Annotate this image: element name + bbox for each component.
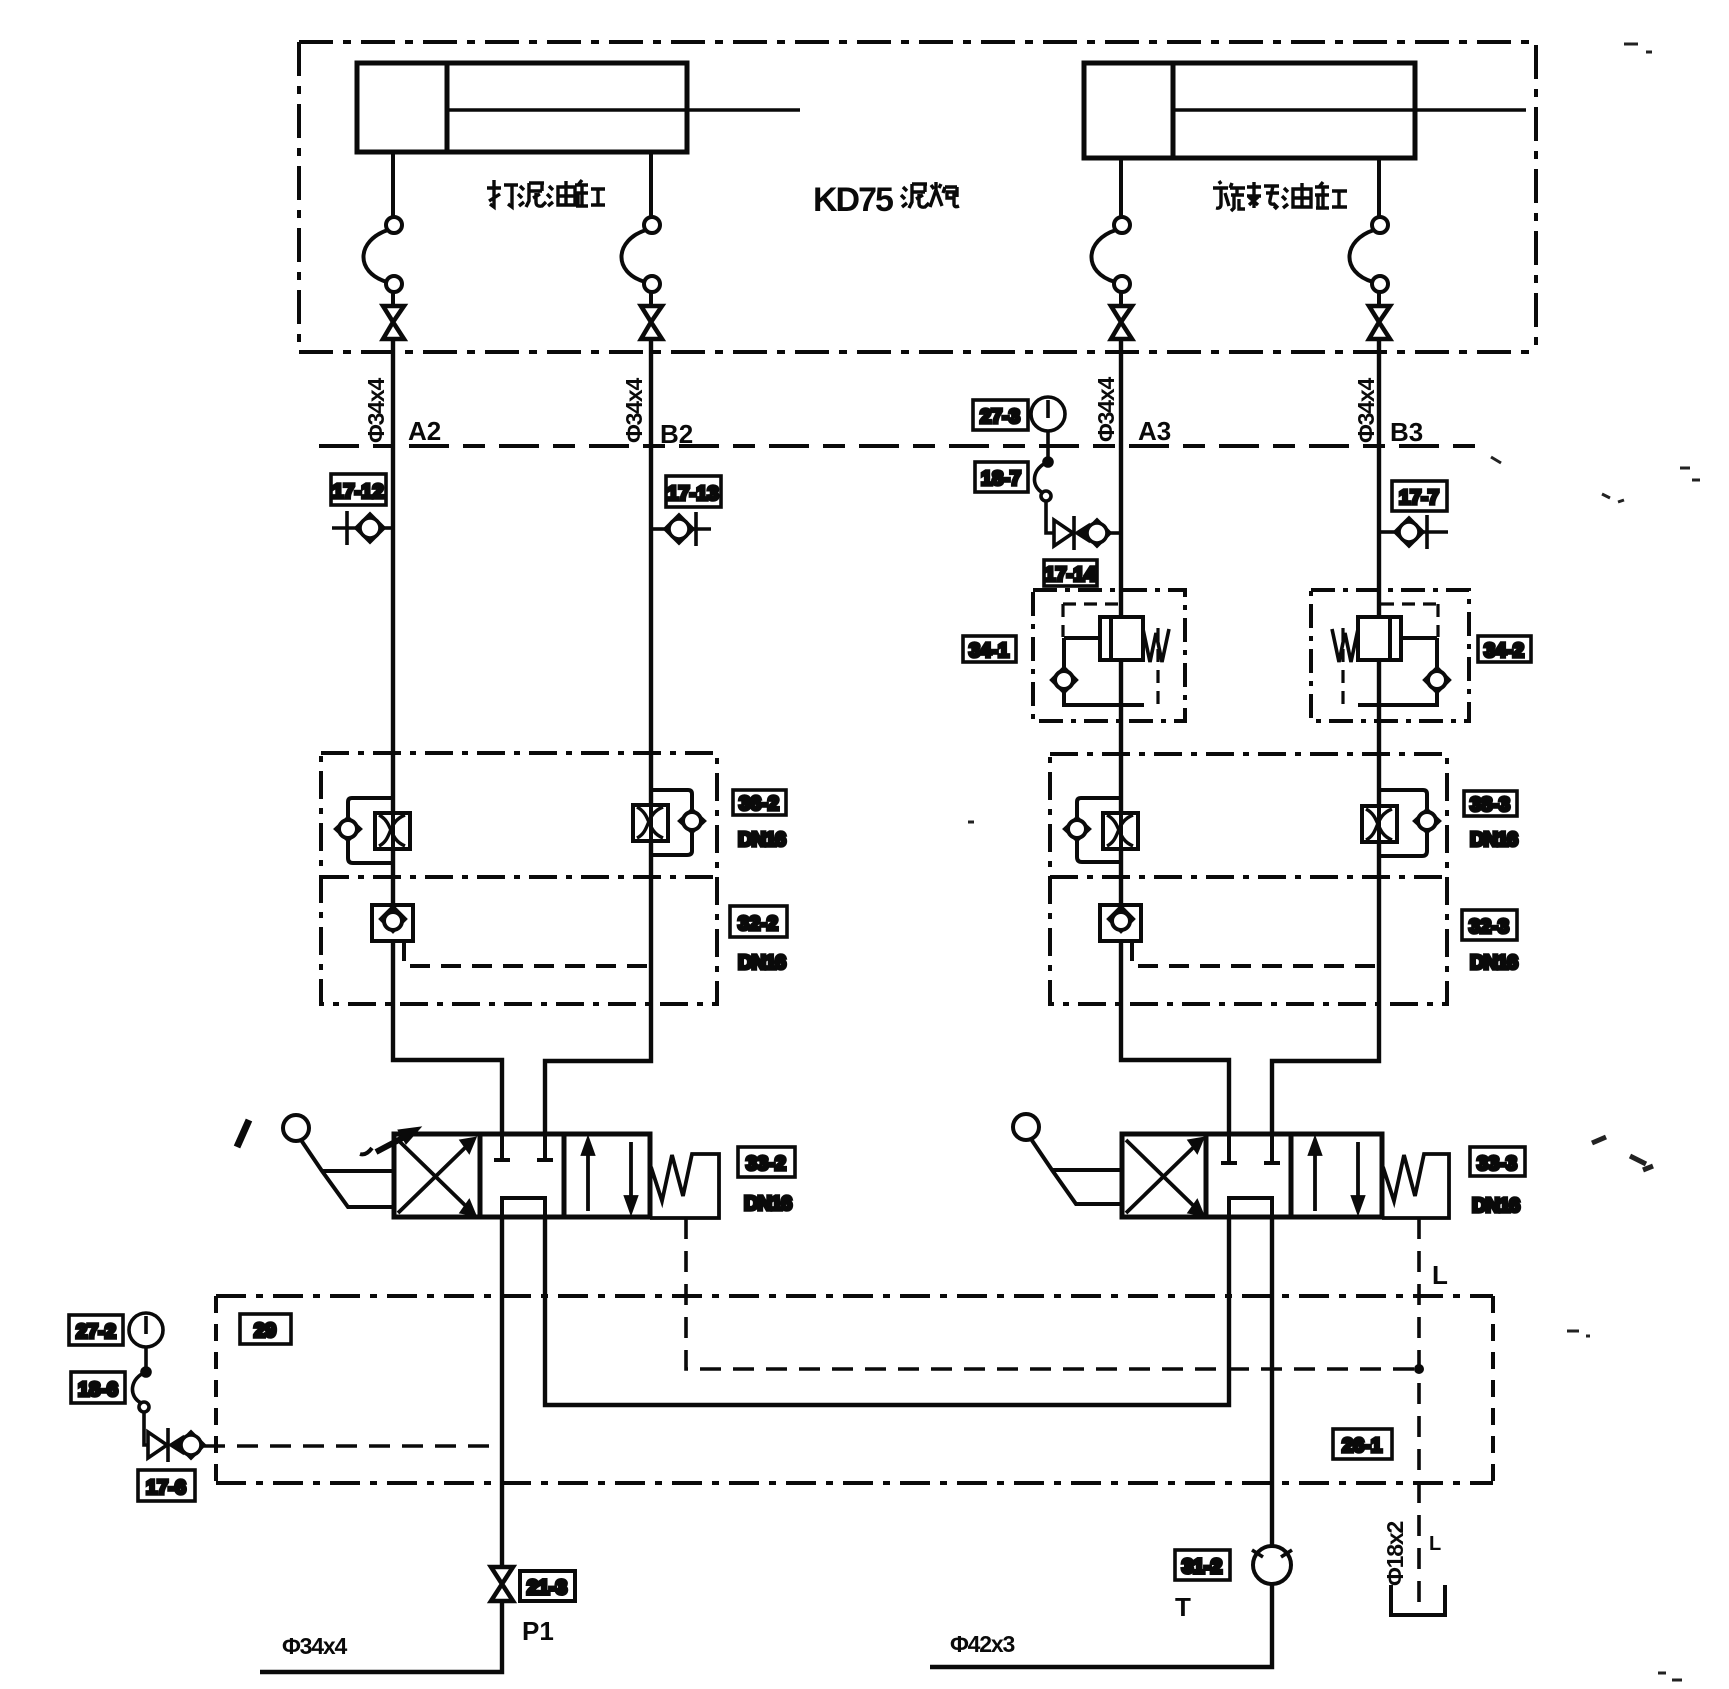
label 36-2 DN16 bbox=[733, 790, 786, 851]
wire 33-2 B to 33-3 P bbox=[545, 1217, 1229, 1405]
svg-text:32-2: 32-2 bbox=[738, 913, 778, 935]
wire P1 supply to valve 33-2 bbox=[500, 1217, 504, 1567]
wire B2 vertical bbox=[545, 339, 651, 1134]
svg-text:Φ34x4: Φ34x4 bbox=[1093, 377, 1119, 442]
manifold block left (36-2 / 32-2 enclosure) bbox=[321, 753, 717, 1004]
directional valve 33-2 body bbox=[394, 1134, 650, 1217]
label 38-3 DN16 bbox=[1464, 791, 1518, 851]
svg-text:Φ42x3: Φ42x3 bbox=[950, 1631, 1014, 1657]
valve 33-3 crossed arrows (left position) bbox=[1126, 1139, 1202, 1214]
svg-text:36-2: 36-2 bbox=[739, 793, 779, 815]
pilot operated check valve 32-3 on A3 bbox=[1100, 905, 1379, 966]
valve 33-3 parallel arrows (right position) bbox=[1310, 1140, 1363, 1211]
shut-off valve on B3 (bowtie) bbox=[1369, 306, 1390, 339]
hose under right cylinder port A3 bbox=[1091, 158, 1130, 306]
pressure gauge 27-2 bbox=[69, 1313, 163, 1370]
svg-text:17-14: 17-14 bbox=[1044, 564, 1096, 586]
label 33-2 DN16 bbox=[738, 1147, 795, 1215]
svg-text:32-3: 32-3 bbox=[1469, 916, 1509, 938]
svg-text:DN16: DN16 bbox=[1470, 829, 1518, 851]
enclosure KD75 mud gun (dash-dot frame) bbox=[299, 42, 1536, 352]
svg-text:Φ34x4: Φ34x4 bbox=[1353, 378, 1379, 443]
shut-off valve with coupling 17-6 bbox=[138, 1428, 204, 1501]
hose under left cylinder port A2 bbox=[363, 152, 402, 306]
throttle check valve (B2 side of 36-2) bbox=[633, 790, 704, 855]
junction dot L bbox=[1414, 1364, 1424, 1374]
svg-text:17-12: 17-12 bbox=[332, 481, 383, 503]
check valve 31-2 on T line bbox=[1175, 1546, 1292, 1584]
svg-text:DN16: DN16 bbox=[738, 829, 786, 851]
wire B3 vertical bbox=[1272, 339, 1379, 1134]
svg-text:17-7: 17-7 bbox=[1399, 487, 1439, 509]
cylinder 打泥油缸 (left hydraulic cylinder) bbox=[357, 63, 800, 152]
valve 33-2 parallel arrows (right position) bbox=[583, 1140, 636, 1211]
svg-text:38-3: 38-3 bbox=[1470, 794, 1510, 816]
valve 33-2 crossed arrows (left position) bbox=[398, 1139, 474, 1214]
svg-text:Φ34x4: Φ34x4 bbox=[363, 378, 389, 443]
label 29 bbox=[240, 1314, 291, 1344]
directional valve 33-3 body bbox=[1122, 1134, 1382, 1217]
hose under left cylinder port B2 bbox=[621, 152, 660, 306]
drain wire L from 33-2 (dashed) bbox=[686, 1218, 1419, 1369]
shut-off valve on A3 (bowtie) bbox=[1111, 306, 1132, 339]
svg-text:18-7: 18-7 bbox=[981, 468, 1021, 490]
valve 33-3 hand lever bbox=[1013, 1114, 1122, 1204]
wire P1 bottom bbox=[260, 1601, 502, 1672]
pen mark / bbox=[237, 1120, 249, 1147]
svg-text:26-1: 26-1 bbox=[1342, 1435, 1382, 1457]
valve 33-2 centre position blocked ports bbox=[494, 1134, 553, 1217]
svg-text:31-2: 31-2 bbox=[1182, 1556, 1222, 1578]
svg-text:P1: P1 bbox=[522, 1616, 554, 1646]
stray scan marks bbox=[968, 44, 1700, 1680]
boundary line between gun and platform (dashed) bbox=[319, 444, 1482, 448]
svg-text:B2: B2 bbox=[660, 419, 693, 449]
label 打泥油缸 (left cylinder title, drawn strokes) bbox=[487, 180, 605, 207]
throttle check valve 38-3 on A3 bbox=[1065, 798, 1138, 862]
test coupling 17-7 on B3 bbox=[1379, 481, 1448, 549]
test coupling 17-12 on A2 bbox=[331, 474, 393, 545]
svg-text:34-2: 34-2 bbox=[1484, 640, 1524, 662]
svg-text:Φ34x4: Φ34x4 bbox=[282, 1633, 347, 1659]
svg-text:29: 29 bbox=[254, 1320, 276, 1342]
svg-text:34-1: 34-1 bbox=[969, 640, 1009, 662]
counterbalance valve 34-2 on B3 bbox=[1478, 636, 1531, 662]
valve 33-3 return spring bbox=[1382, 1154, 1449, 1218]
manifold block right (38-3 / 32-3 enclosure) bbox=[1050, 754, 1447, 1004]
label 旋转油缸 (right cylinder title, drawn strokes) bbox=[1213, 181, 1347, 211]
shut-off valve on B2 (bowtie) bbox=[641, 306, 662, 339]
test line to P1 (dashed) bbox=[204, 1444, 501, 1448]
wire A2 vertical bbox=[393, 339, 502, 1134]
svg-text:T: T bbox=[1175, 1592, 1191, 1622]
svg-text:A3: A3 bbox=[1138, 416, 1171, 446]
svg-text:Φ18x2: Φ18x2 bbox=[1382, 1522, 1408, 1586]
svg-text:27-2: 27-2 bbox=[76, 1321, 116, 1343]
label 26-1 bbox=[1333, 1429, 1392, 1459]
svg-text:27-3: 27-3 bbox=[980, 406, 1020, 428]
svg-text:B3: B3 bbox=[1390, 417, 1423, 447]
shut-off valve on A2 (bowtie) bbox=[383, 306, 404, 339]
label 32-3 DN16 bbox=[1462, 910, 1518, 974]
shut-off valve with coupling 17-14 on A3 bbox=[1044, 516, 1121, 586]
shut-off valve 21-3 on P1 (bowtie) bbox=[491, 1567, 575, 1601]
test coupling 17-13 on B2 bbox=[651, 476, 721, 546]
svg-text:33-3: 33-3 bbox=[1477, 1153, 1517, 1175]
svg-text:33-2: 33-2 bbox=[746, 1153, 786, 1175]
drain wire L from 33-3 (dashed) bbox=[1417, 1218, 1421, 1612]
label 32-2 DN16 bbox=[730, 906, 787, 974]
counterbalance valve 34-1 on A3 bbox=[963, 636, 1016, 662]
wire 33-3 T down bbox=[1270, 1218, 1274, 1547]
port L tank symbol bbox=[1391, 1585, 1445, 1615]
svg-text:L: L bbox=[1429, 1533, 1441, 1555]
svg-text:DN16: DN16 bbox=[1472, 1195, 1520, 1217]
svg-text:A2: A2 bbox=[408, 416, 441, 446]
label 33-3 DN16 bbox=[1470, 1147, 1525, 1217]
svg-text:21-3: 21-3 bbox=[527, 1577, 567, 1599]
valve 33-2 return spring bbox=[650, 1154, 719, 1218]
throttle check valve (B3 side of 38-3) bbox=[1362, 790, 1439, 856]
svg-text:17-6: 17-6 bbox=[146, 1477, 186, 1499]
svg-text:18-6: 18-6 bbox=[78, 1379, 118, 1401]
pen mark arrow at 33-2 bbox=[360, 1127, 421, 1154]
cylinder 旋转油缸 (right hydraulic cylinder) bbox=[1084, 63, 1526, 158]
svg-text:DN16: DN16 bbox=[744, 1193, 792, 1215]
valve 33-3 centre position blocked ports bbox=[1221, 1134, 1280, 1217]
pilot operated check valve 32-2 on A2 bbox=[372, 905, 651, 966]
valve stand enclosure 29 (dash-dot box) bbox=[216, 1296, 1493, 1483]
wire T bottom bbox=[930, 1584, 1272, 1667]
svg-text:L: L bbox=[1432, 1260, 1448, 1290]
hose 18-7 bbox=[975, 458, 1054, 533]
pressure gauge 27-3 bbox=[973, 397, 1065, 459]
svg-text:Φ34x4: Φ34x4 bbox=[621, 378, 647, 443]
wire A3 vertical bbox=[1121, 339, 1229, 1134]
hose 18-6 bbox=[71, 1368, 150, 1445]
svg-text:17-13: 17-13 bbox=[667, 483, 718, 505]
hose under right cylinder port B3 bbox=[1349, 158, 1388, 306]
svg-text:DN16: DN16 bbox=[738, 952, 786, 974]
svg-text:DN16: DN16 bbox=[1470, 952, 1518, 974]
svg-text:KD75: KD75 bbox=[813, 181, 893, 219]
throttle check valve 36-2 on A2 bbox=[336, 798, 410, 863]
valve 33-2 hand lever bbox=[283, 1115, 394, 1207]
